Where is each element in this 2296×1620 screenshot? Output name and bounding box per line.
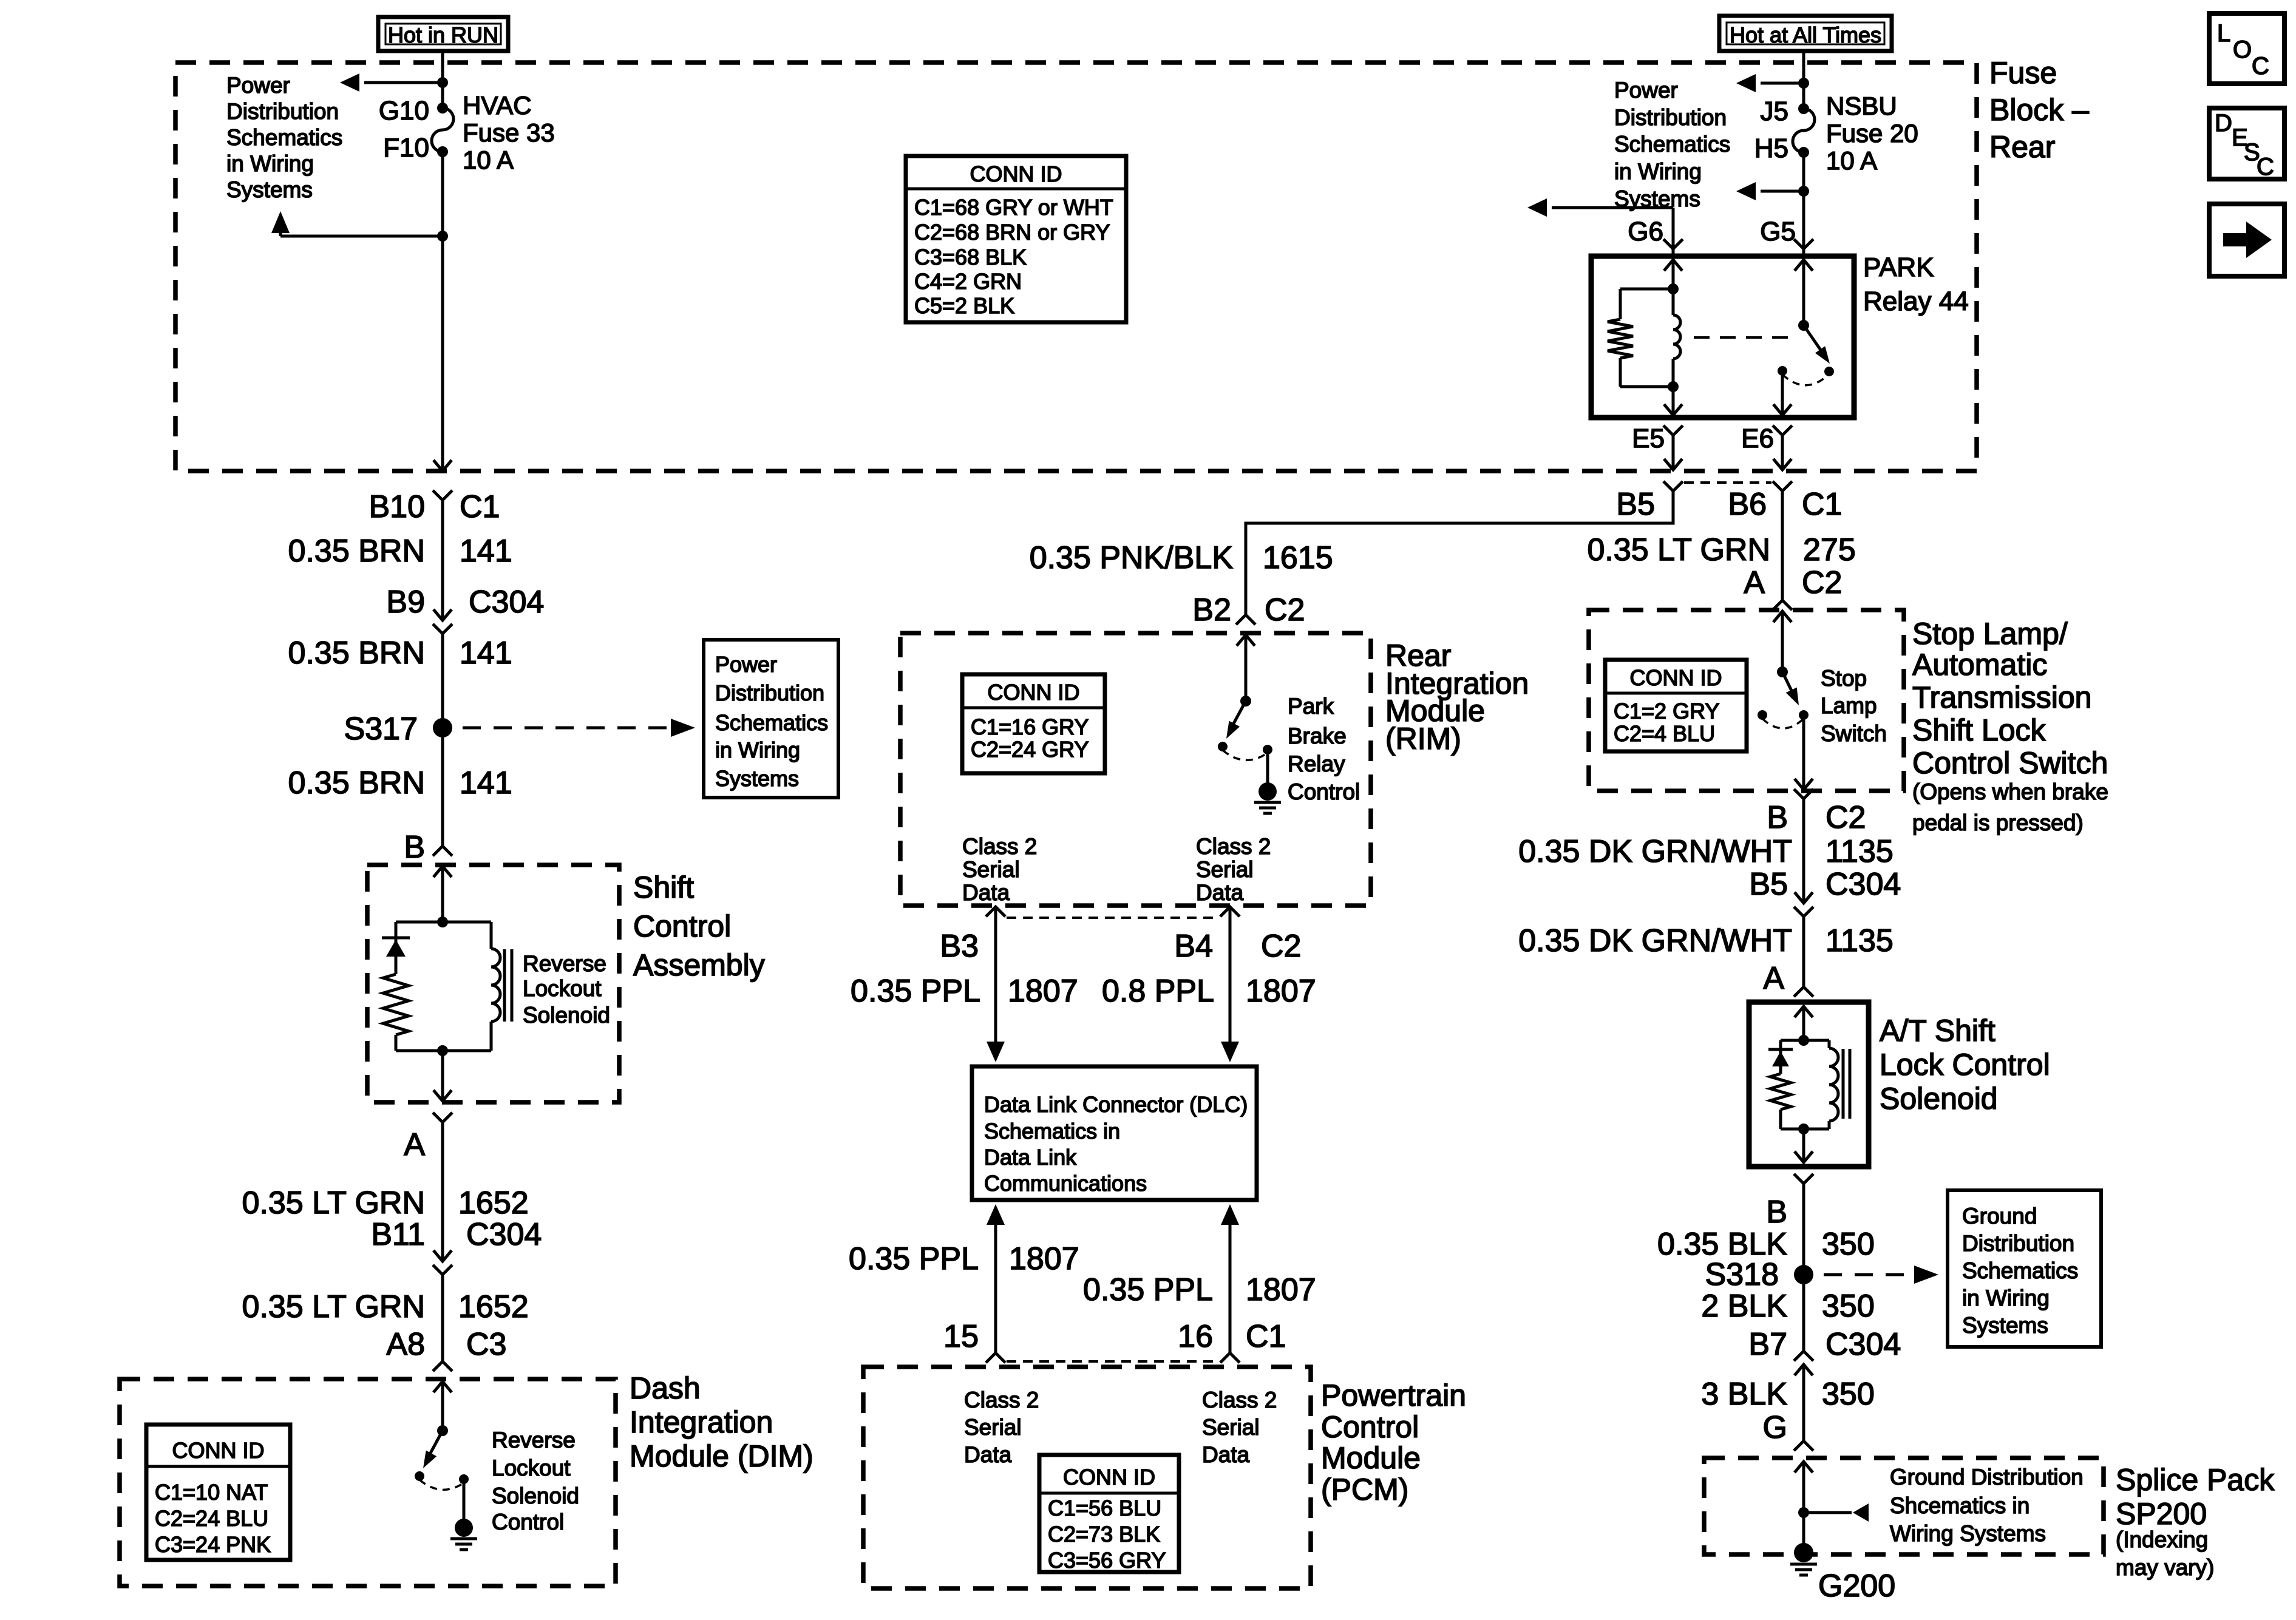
svg-text:C5=2 BLK: C5=2 BLK [914, 293, 1014, 318]
svg-text:Schematics: Schematics [226, 125, 342, 150]
arrow up into DLC left [987, 1204, 1005, 1353]
svg-text:C2: C2 [1826, 800, 1866, 835]
svg-text:C: C [2257, 154, 2274, 180]
svg-text:E5: E5 [1632, 424, 1665, 453]
ground RIM park brake [1254, 750, 1281, 813]
svg-text:C1: C1 [1246, 1319, 1286, 1354]
at solenoid bottom node [1781, 1123, 1829, 1162]
svg-text:B6: B6 [1728, 487, 1767, 522]
dashed arrow S318 to ground distribution box [1824, 1266, 1938, 1284]
switch reverse lockout solenoid control [415, 1425, 469, 1490]
svg-text:0.8 PPL: 0.8 PPL [1102, 974, 1214, 1009]
label ground distribution shcematics [1890, 1465, 2084, 1546]
label 0.35 PPL 1807 down-left [851, 974, 1078, 1009]
svg-text:Serial: Serial [964, 1415, 1022, 1440]
label 0.35 DK GRN/WHT 1135 row1 [1518, 834, 1894, 869]
label 16 C1 [1178, 1319, 1286, 1354]
svg-text:2 BLK: 2 BLK [1701, 1289, 1787, 1324]
svg-text:CONN ID: CONN ID [970, 161, 1062, 186]
label Rear Integration Module RIM [1385, 639, 1529, 756]
ground DIM [450, 1479, 477, 1550]
svg-text:1615: 1615 [1263, 540, 1333, 575]
svg-text:Control: Control [1288, 779, 1360, 804]
splice S318 [1705, 1257, 1813, 1292]
resistor R2 at solenoid [1770, 1074, 1791, 1129]
svg-text:0.35 DK GRN/WHT: 0.35 DK GRN/WHT [1518, 834, 1792, 869]
svg-text:G: G [1763, 1410, 1787, 1445]
corner box arrow [2209, 204, 2284, 276]
svg-text:C: C [2252, 53, 2269, 80]
svg-text:Data: Data [964, 1442, 1012, 1467]
solenoid core bars [504, 949, 512, 1022]
svg-text:1135: 1135 [1826, 834, 1894, 869]
svg-text:Class 2: Class 2 [1196, 834, 1271, 859]
label Shift Control Assembly [633, 870, 765, 982]
conn id table stop lamp [1605, 660, 1747, 751]
svg-text:in Wiring: in Wiring [715, 737, 800, 762]
svg-text:10 A: 10 A [1826, 146, 1877, 175]
svg-text:Distribution: Distribution [1614, 105, 1727, 130]
connector E5 [1632, 424, 1683, 470]
arrow to power distribution J5 branch [1736, 74, 1809, 92]
svg-text:B11: B11 [371, 1217, 425, 1252]
connector B4 C2 out of RIM [1174, 907, 1301, 1042]
svg-text:Control Switch: Control Switch [1912, 746, 2108, 780]
label Reverse Lockout Solenoid [523, 951, 610, 1028]
splice pack dashed box [1704, 1458, 2104, 1554]
svg-text:Splice Pack: Splice Pack [2116, 1463, 2275, 1497]
label Dash Integration Module [630, 1371, 813, 1473]
arrow branch to power distribution lower [271, 211, 448, 242]
svg-text:Solenoid: Solenoid [492, 1483, 579, 1508]
svg-text:S317: S317 [344, 711, 418, 747]
svg-text:(Indexing: (Indexing [2116, 1527, 2208, 1552]
svg-text:Lockout: Lockout [492, 1456, 571, 1480]
svg-text:C1=68 GRY or WHT: C1=68 GRY or WHT [914, 195, 1113, 220]
rear integration module dashed box [900, 633, 1371, 906]
svg-text:Solenoid: Solenoid [523, 1003, 610, 1028]
arrow up into DLC right [1221, 1204, 1239, 1353]
svg-text:O: O [2233, 36, 2252, 63]
conn id table fuse block [906, 156, 1126, 322]
svg-text:Serial: Serial [1202, 1415, 1260, 1440]
box power distribution schematics mid [704, 640, 838, 798]
svg-text:Distribution: Distribution [226, 99, 339, 124]
diode D1 reverse lockout [382, 922, 410, 974]
corner box LOC [2209, 13, 2284, 84]
label 0.35 LT GRN 1652 row1 [242, 1185, 528, 1221]
label 0.35 LT GRN 275 [1587, 532, 1855, 568]
svg-text:C3: C3 [466, 1327, 506, 1362]
svg-text:Systems: Systems [1962, 1313, 2048, 1338]
svg-text:1807: 1807 [1008, 974, 1078, 1009]
svg-text:H5: H5 [1754, 134, 1788, 163]
svg-text:E6: E6 [1741, 424, 1774, 453]
label PARK Relay 44 [1863, 252, 1969, 316]
label 0.35 BRN 141 row1 [288, 534, 512, 569]
label Splice Pack SP200 [2116, 1463, 2275, 1580]
at solenoid core bars [1843, 1049, 1850, 1119]
svg-text:Fuse: Fuse [1989, 56, 2057, 90]
svg-text:Assembly: Assembly [633, 948, 765, 982]
svg-text:C304: C304 [1826, 1327, 1901, 1362]
arrow into DLC right [1221, 1042, 1239, 1062]
svg-text:B5: B5 [1749, 867, 1788, 902]
svg-text:16: 16 [1178, 1319, 1213, 1354]
conn id table RIM [962, 674, 1105, 773]
connector B5 [1616, 481, 1683, 522]
svg-text:0.35 PPL: 0.35 PPL [851, 974, 980, 1009]
stop lamp switch exit wire [1794, 715, 1813, 903]
wire fuse to exit [441, 152, 444, 470]
svg-text:C1=56 BLU: C1=56 BLU [1048, 1496, 1161, 1520]
svg-text:B: B [1767, 800, 1788, 835]
svg-text:Schematics in: Schematics in [984, 1119, 1120, 1144]
svg-text:G6: G6 [1628, 217, 1663, 246]
svg-text:Module (DIM): Module (DIM) [630, 1439, 813, 1473]
svg-text:0.35 DK GRN/WHT: 0.35 DK GRN/WHT [1518, 923, 1792, 958]
label class2 serial data PCM left [964, 1388, 1039, 1467]
relay coil [1668, 289, 1680, 392]
shift control assembly dashed box [367, 865, 619, 1102]
relay resistor [1608, 283, 1679, 387]
svg-text:1652: 1652 [458, 1289, 529, 1324]
svg-text:15: 15 [943, 1319, 979, 1354]
label A8 C3 [386, 1327, 506, 1362]
connector B3 out of RIM [940, 907, 1005, 1042]
label G6 [1628, 217, 1663, 246]
svg-text:CONN ID: CONN ID [1630, 665, 1722, 690]
svg-text:Data: Data [962, 880, 1010, 905]
connector B below AT solenoid [1766, 1174, 1813, 1275]
label 0.35 DK GRN/WHT 1135 row2 [1518, 923, 1894, 958]
svg-text:C3=68 BLK: C3=68 BLK [914, 245, 1027, 269]
svg-text:G200: G200 [1818, 1568, 1895, 1604]
svg-text:may vary): may vary) [2116, 1555, 2214, 1580]
relay coil entry arrow [1664, 260, 1682, 289]
splice S317 [344, 711, 452, 747]
svg-text:1652: 1652 [458, 1185, 529, 1221]
svg-text:A: A [1763, 961, 1784, 996]
label G5 [1760, 217, 1796, 246]
svg-text:C2=73 BLK: C2=73 BLK [1048, 1522, 1160, 1547]
resistor R1 reverse lockout [383, 974, 409, 1051]
label A pin shift [404, 1127, 425, 1162]
svg-text:B5: B5 [1616, 487, 1655, 522]
conn id table PCM [1039, 1455, 1179, 1573]
label B pin [404, 830, 425, 865]
svg-text:Data Link Connector (DLC): Data Link Connector (DLC) [984, 1092, 1248, 1117]
label 15 [943, 1319, 979, 1354]
svg-text:3 BLK: 3 BLK [1701, 1377, 1787, 1412]
svg-text:0.35 PPL: 0.35 PPL [849, 1241, 979, 1276]
connector exit shift assembly A [433, 1090, 452, 1261]
svg-text:Park: Park [1288, 694, 1334, 719]
svg-text:in Wiring: in Wiring [1962, 1286, 2050, 1310]
svg-text:C4=2 GRN: C4=2 GRN [914, 269, 1022, 294]
svg-text:Systems: Systems [226, 177, 313, 202]
svg-text:NSBU: NSBU [1826, 92, 1897, 120]
svg-text:Shift: Shift [633, 870, 694, 904]
svg-text:Shcematics in: Shcematics in [1890, 1493, 2029, 1518]
label box Hot at All Times [1719, 16, 1892, 51]
svg-text:Class 2: Class 2 [962, 834, 1037, 859]
dashed arrow S317 to power distribution box [463, 719, 695, 737]
svg-text:B4: B4 [1174, 929, 1213, 964]
wire hot at all times feed [1802, 51, 1805, 109]
connector C304 B7 [1748, 1327, 1901, 1441]
splice pack node and arrow [1798, 1503, 1869, 1522]
connector E6 [1741, 424, 1792, 470]
label 0.35 PNK/BLK 1615 [1030, 540, 1333, 575]
svg-text:0.35 BRN: 0.35 BRN [288, 765, 425, 801]
svg-text:in Wiring: in Wiring [226, 151, 314, 176]
label B C2 below stop lamp [1767, 800, 1866, 835]
svg-text:L: L [2217, 20, 2230, 47]
svg-text:Relay: Relay [1288, 751, 1345, 776]
label 0.35 BRN 141 row3 [288, 765, 512, 801]
connector 15 PCM [986, 1353, 1005, 1363]
svg-text:350: 350 [1822, 1227, 1875, 1262]
data link connector box [972, 1066, 1257, 1200]
svg-text:Block –: Block – [1989, 93, 2089, 127]
svg-text:G10: G10 [379, 96, 429, 126]
svg-text:0.35 PNK/BLK: 0.35 PNK/BLK [1030, 540, 1234, 575]
label B2 C2 [1192, 592, 1305, 628]
svg-text:(Opens when brake: (Opens when brake [1912, 779, 2108, 804]
relay switch exit [1773, 371, 1792, 415]
corner box DESC [2209, 108, 2284, 180]
label G pin [1763, 1410, 1787, 1445]
svg-text:Lockout: Lockout [523, 976, 602, 1001]
svg-text:Data: Data [1202, 1442, 1250, 1467]
svg-text:Data: Data [1196, 880, 1244, 905]
svg-text:Integration: Integration [630, 1405, 773, 1439]
box ground distribution schematics right [1948, 1190, 2101, 1347]
svg-text:Schematics: Schematics [1962, 1258, 2078, 1283]
svg-text:Solenoid: Solenoid [1880, 1082, 1998, 1116]
label class2 serial data PCM right [1202, 1388, 1277, 1467]
svg-text:10 A: 10 A [463, 146, 514, 174]
svg-text:0.35 PPL: 0.35 PPL [1083, 1272, 1213, 1307]
svg-text:350: 350 [1822, 1377, 1875, 1412]
wire 0.35 PNK/BLK 1615 [1246, 491, 1673, 615]
stop lamp dashed box [1589, 610, 1904, 791]
svg-text:Powertrain: Powertrain [1321, 1378, 1466, 1412]
svg-text:Ground Distribution: Ground Distribution [1890, 1465, 2084, 1490]
svg-text:0.35 LT GRN: 0.35 LT GRN [1587, 532, 1770, 568]
relay switch arm [1798, 320, 1830, 364]
svg-text:Control: Control [492, 1510, 564, 1534]
coil L2 at solenoid [1829, 1040, 1838, 1129]
svg-text:C2=24 BLU: C2=24 BLU [155, 1506, 268, 1531]
svg-text:(RIM): (RIM) [1385, 722, 1461, 756]
label B10 C1 [369, 489, 500, 524]
label opens when brake [1912, 779, 2108, 835]
label 0.35 PPL 1807 up-right [1083, 1272, 1316, 1307]
connector into shift control assembly [433, 846, 452, 922]
ground G200 [1790, 1513, 1895, 1604]
label AT Shift Lock Control Solenoid [1880, 1014, 2050, 1116]
svg-text:Class 2: Class 2 [1202, 1388, 1277, 1412]
svg-text:Fuse 33: Fuse 33 [463, 118, 555, 147]
label Stop Lamp Switch [1821, 666, 1887, 746]
svg-text:0.35 BRN: 0.35 BRN [288, 534, 425, 569]
note power distribution schematics right [1614, 78, 1730, 211]
svg-text:A: A [404, 1127, 425, 1162]
svg-text:Power: Power [1614, 78, 1678, 103]
label A above AT solenoid [1763, 961, 1784, 996]
svg-text:B: B [404, 830, 425, 865]
connector 16 PCM [1220, 1353, 1240, 1363]
svg-text:1807: 1807 [1246, 974, 1316, 1009]
svg-text:F10: F10 [383, 133, 429, 163]
dash integration module dashed box [120, 1379, 616, 1586]
svg-text:1807: 1807 [1246, 1272, 1316, 1307]
label A C2 stop lamp entry [1744, 565, 1842, 600]
label 0.35 BRN 141 row2 [288, 635, 512, 671]
svg-text:141: 141 [460, 765, 512, 801]
svg-text:Lamp: Lamp [1821, 693, 1877, 718]
svg-text:A: A [1744, 565, 1765, 600]
relay actuation dashed line [1694, 336, 1798, 339]
label 0.35 PPL 1807 up-left [849, 1241, 1079, 1276]
arrow to power distribution G10 branch [340, 73, 448, 92]
svg-text:C2: C2 [1802, 565, 1842, 600]
svg-text:B10: B10 [369, 489, 425, 524]
note power distribution schematics left [226, 73, 342, 202]
switch park brake relay control [1218, 696, 1272, 760]
label Park Brake Relay Control [1288, 694, 1360, 804]
node solenoid bottom [396, 1045, 491, 1100]
node solenoid top [396, 917, 491, 927]
label 3 BLK 350 [1701, 1377, 1874, 1412]
svg-text:G5: G5 [1760, 217, 1796, 246]
svg-text:SP200: SP200 [2116, 1497, 2207, 1531]
svg-text:D: D [2215, 110, 2232, 137]
svg-text:CONN ID: CONN ID [1063, 1465, 1155, 1490]
connector G6 into relay [1663, 239, 1683, 257]
relay switch entry arrow [1795, 260, 1813, 325]
connector into DIM [433, 1361, 452, 1431]
svg-text:in Wiring: in Wiring [1614, 159, 1702, 184]
svg-text:Serial: Serial [962, 857, 1020, 882]
svg-text:0.35 LT GRN: 0.35 LT GRN [242, 1289, 425, 1324]
connector into AT solenoid box [1794, 987, 1813, 1040]
svg-text:Hot in RUN: Hot in RUN [388, 22, 498, 47]
svg-text:C2=24 GRY: C2=24 GRY [971, 737, 1089, 762]
svg-text:Data Link: Data Link [984, 1145, 1077, 1170]
wire fuse20 down to G5 [1802, 152, 1805, 249]
coil L1 reverse lockout solenoid [491, 922, 500, 1051]
svg-text:C1: C1 [1802, 487, 1842, 522]
switch stop lamp [1758, 666, 1809, 728]
svg-text:Wiring Systems: Wiring Systems [1890, 1521, 2046, 1546]
svg-text:Automatic: Automatic [1912, 648, 2047, 682]
svg-text:S318: S318 [1705, 1257, 1779, 1292]
svg-text:1807: 1807 [1009, 1241, 1079, 1276]
wire S318 down [1802, 1275, 1805, 1351]
at shift lock control solenoid box [1749, 1002, 1869, 1167]
svg-text:CONN ID: CONN ID [988, 680, 1080, 705]
svg-text:Stop: Stop [1821, 666, 1867, 691]
connector into stop lamp switch [1773, 600, 1792, 672]
label class2 serial data RIM left [962, 834, 1037, 905]
svg-text:CONN ID: CONN ID [172, 1438, 265, 1463]
connector C304 B11 [371, 1217, 542, 1361]
svg-text:J5: J5 [1761, 97, 1788, 126]
label 0.8 PPL 1807 down-right [1102, 974, 1316, 1009]
svg-text:1135: 1135 [1826, 923, 1894, 958]
powertrain control module dashed box [863, 1367, 1311, 1588]
svg-text:PARK: PARK [1863, 252, 1934, 282]
conn id table DIM [146, 1425, 290, 1560]
connector G5 into relay [1794, 239, 1813, 257]
connector B6 C1 [1728, 481, 1842, 600]
svg-text:B3: B3 [940, 929, 979, 964]
svg-text:Rear: Rear [1989, 130, 2055, 164]
at solenoid top node [1781, 1035, 1829, 1046]
svg-text:Communications: Communications [984, 1171, 1147, 1196]
park relay 44 box [1591, 256, 1854, 418]
relay switch contacts [1778, 366, 1834, 385]
fuse F20 NSBU [1754, 92, 1918, 175]
connector into splice pack G [1794, 1441, 1813, 1513]
connector C304 B5 right [1749, 867, 1901, 987]
svg-text:C3=24 PNK: C3=24 PNK [155, 1532, 271, 1557]
svg-text:Power: Power [226, 73, 290, 98]
svg-text:B9: B9 [386, 585, 425, 620]
svg-text:141: 141 [460, 534, 512, 569]
svg-text:C304: C304 [1826, 867, 1901, 902]
svg-text:Serial: Serial [1196, 857, 1254, 882]
svg-text:C1=10 NAT: C1=10 NAT [155, 1480, 268, 1505]
svg-text:Control: Control [1321, 1410, 1419, 1444]
svg-text:(PCM): (PCM) [1321, 1473, 1408, 1506]
svg-text:Control: Control [633, 909, 731, 943]
svg-text:Schematics: Schematics [715, 710, 828, 735]
label Powertrain Control Module PCM [1321, 1378, 1466, 1506]
svg-text:141: 141 [460, 635, 512, 671]
svg-text:Lock Control: Lock Control [1880, 1048, 2050, 1082]
label 0.35 LT GRN 1652 row2 [242, 1289, 528, 1324]
svg-text:Dash: Dash [630, 1371, 701, 1405]
svg-text:Switch: Switch [1821, 721, 1887, 746]
svg-text:C2: C2 [1265, 592, 1305, 628]
arrow into DLC left [987, 1042, 1005, 1062]
svg-text:C2=68 BRN or GRY: C2=68 BRN or GRY [914, 220, 1110, 245]
svg-text:B7: B7 [1748, 1327, 1787, 1362]
svg-text:Brake: Brake [1288, 724, 1347, 748]
label Reverse Lockout Solenoid Control [492, 1428, 579, 1534]
wire hot in run feed [441, 51, 444, 108]
svg-text:C1=16 GRY: C1=16 GRY [971, 714, 1089, 739]
svg-text:Reverse: Reverse [523, 951, 606, 976]
svg-text:Class 2: Class 2 [964, 1388, 1039, 1412]
svg-text:350: 350 [1822, 1289, 1875, 1324]
svg-text:Reverse: Reverse [492, 1428, 576, 1452]
svg-text:0.35 BRN: 0.35 BRN [288, 635, 425, 671]
svg-text:Shift Lock: Shift Lock [1912, 713, 2046, 747]
label 0.35 BLK 350 [1657, 1227, 1875, 1262]
thin dashed connector line 15 16 [1007, 1360, 1219, 1363]
svg-text:A/T Shift: A/T Shift [1880, 1014, 1995, 1048]
relay coil exit [1664, 387, 1682, 415]
svg-text:C2: C2 [1261, 929, 1301, 964]
fuse F33 HVAC [379, 91, 555, 174]
svg-text:Distribution: Distribution [1962, 1231, 2074, 1256]
arrow branch G6 to power distribution [1527, 198, 1673, 249]
